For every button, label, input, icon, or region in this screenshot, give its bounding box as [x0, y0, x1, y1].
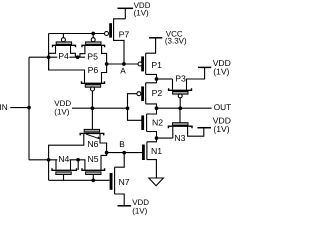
svg-text:B: B: [119, 139, 125, 149]
svg-text:P7: P7: [119, 29, 130, 39]
wire N2/N1 midpoint to N3: [157, 137, 173, 139]
wire bottom-left rail: [29, 159, 80, 161]
transistor P1: [138, 53, 162, 79]
svg-text:P2: P2: [152, 88, 163, 98]
svg-text:(1V): (1V): [213, 66, 229, 76]
node dot bottom rail right: [76, 158, 80, 162]
node dot gate bus above P5: [91, 32, 95, 36]
node dot top rail left: [47, 55, 51, 59]
svg-text:N1: N1: [151, 146, 162, 156]
node dot bottom rail left: [47, 158, 51, 162]
svg-text:(1V): (1V): [54, 108, 69, 117]
ground symbol: [149, 178, 164, 186]
svg-text:N3: N3: [174, 133, 185, 143]
node dot center rail P6/N6 gates: [91, 106, 95, 110]
transistor P6: [49, 57, 107, 108]
transistor P5: [80, 34, 107, 65]
transistor P7: [105, 19, 130, 64]
transistor N4: [52, 154, 78, 180]
node dot B left: [105, 151, 109, 155]
transistor N3: [168, 108, 203, 143]
wire node B: [107, 152, 143, 154]
node dot A left: [105, 62, 109, 66]
svg-text:P3: P3: [175, 74, 186, 84]
node OUT label: [214, 102, 232, 112]
wire OUT: [157, 107, 212, 109]
node dot OUT P3 gate: [178, 106, 182, 110]
node A label: [120, 66, 126, 76]
svg-text:VDD: VDD: [54, 99, 71, 108]
node B label: [119, 139, 125, 149]
wire midpoint to P3: [157, 78, 173, 80]
svg-text:(1V): (1V): [132, 207, 147, 216]
node dot center rail P2/N2 gates: [126, 106, 130, 110]
power VCC 3.3V rail: [146, 29, 187, 53]
svg-text:A: A: [120, 66, 126, 76]
transistor N1: [142, 138, 162, 178]
svg-text:P6: P6: [88, 65, 99, 75]
transistor P4: [49, 34, 76, 62]
node dot bottom gate bus N5: [91, 178, 95, 182]
svg-text:P5: P5: [87, 52, 98, 62]
node dot A right: [122, 62, 126, 66]
power VDD 1V stub (P3): [198, 58, 231, 76]
power VDD 1V rail (P7): [118, 1, 151, 19]
wire top gate bus: [49, 33, 105, 35]
transistor P2: [128, 79, 163, 114]
transistor N5: [80, 153, 107, 181]
svg-text:IN: IN: [0, 102, 8, 112]
label VDD 1V center: [54, 99, 71, 117]
node dot N2/N1 midpoint: [155, 136, 159, 140]
svg-text:N4: N4: [58, 154, 69, 164]
svg-text:(1V): (1V): [213, 124, 229, 134]
svg-text:(1V): (1V): [134, 8, 149, 17]
wire node A: [107, 63, 138, 65]
wire top-left rail: [29, 56, 85, 58]
wire IN horizontal: [10, 107, 29, 109]
svg-text:N2: N2: [152, 118, 163, 128]
wire bottom gate bus: [49, 160, 110, 181]
node dot P2/N2 output tap: [155, 106, 159, 110]
svg-text:(3.3V): (3.3V): [165, 37, 187, 46]
node dot top rail right: [76, 55, 80, 59]
svg-text:P4: P4: [58, 51, 69, 61]
svg-text:N5: N5: [88, 154, 99, 164]
svg-text:N6: N6: [87, 139, 98, 149]
transistor N7: [110, 153, 130, 206]
transistor N2: [128, 108, 164, 138]
power VDD 1V stub (N7): [118, 198, 150, 216]
node IN: [0, 102, 8, 112]
wire gate bus left drop: [48, 34, 50, 71]
node IN junction dot: [27, 106, 31, 110]
svg-text:OUT: OUT: [214, 102, 232, 112]
node dot B right: [122, 151, 126, 155]
wire IN vertical trunk: [28, 57, 30, 160]
node dot P1/P2 midpoint: [155, 77, 159, 81]
power VDD 1V stub (N3): [197, 116, 231, 134]
wire VDD 1V center rail: [72, 107, 128, 109]
svg-text:N7: N7: [119, 177, 130, 187]
svg-text:P1: P1: [151, 60, 162, 70]
transistor N6: [49, 108, 107, 160]
transistor P3: [169, 67, 205, 108]
